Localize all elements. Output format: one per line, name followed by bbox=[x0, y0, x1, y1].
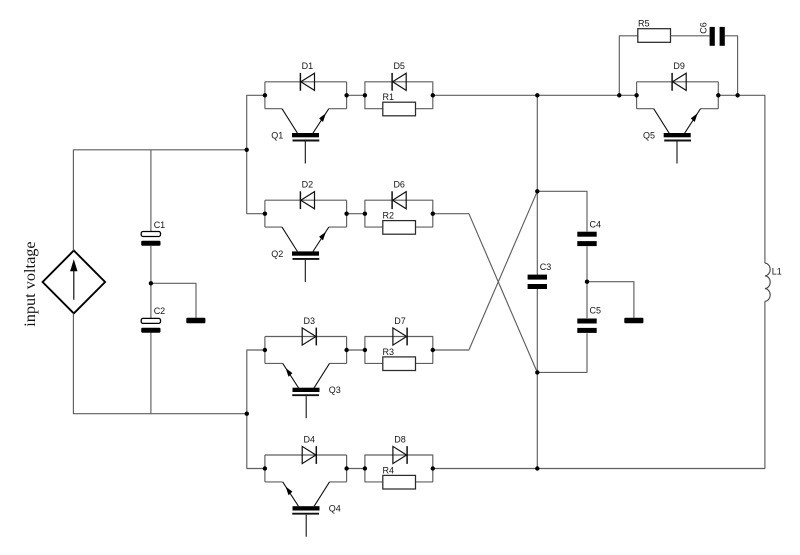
wire: Q5 to top-right corner down to L1 bbox=[718, 95, 765, 263]
svg-text:C5: C5 bbox=[590, 305, 602, 315]
svg-text:R1: R1 bbox=[383, 92, 395, 102]
resistor R4 bbox=[383, 465, 416, 489]
capacitor C2 bbox=[141, 306, 165, 333]
transistor Q1 bbox=[271, 109, 329, 164]
wire: C2 ground stub bbox=[151, 283, 196, 318]
node: lower center node bbox=[535, 370, 539, 374]
resistor R1 bbox=[383, 92, 416, 116]
wire: capacitor column lower bbox=[150, 332, 152, 414]
diode D9 bbox=[672, 61, 686, 91]
resistor R5 bbox=[638, 18, 671, 42]
wire: Q1 output to center node bbox=[433, 94, 538, 96]
svg-text:D6: D6 bbox=[393, 180, 405, 190]
node: R4 box left bbox=[363, 466, 367, 470]
wire: C4/C5 ground stub bbox=[587, 282, 634, 318]
svg-text:R3: R3 bbox=[383, 347, 395, 357]
capacitor C4 bbox=[577, 219, 601, 246]
wire: Q4 output to lower-right rail bbox=[433, 468, 538, 470]
wire: Q4 stage outline box bbox=[265, 455, 347, 482]
node: upper bus junction bbox=[245, 148, 249, 152]
wire: upper node to C4 bbox=[537, 191, 587, 231]
svg-text:C6: C6 bbox=[698, 22, 708, 34]
wire: R2/D6 parallel box bbox=[365, 200, 433, 227]
wire: capacitor column upper bbox=[150, 150, 152, 232]
node: lower bus junction bbox=[245, 412, 249, 416]
node: Q3 right bbox=[344, 348, 348, 352]
wire: L1 down to bottom-right rail bbox=[537, 301, 765, 468]
node: R1 box right bbox=[431, 93, 435, 97]
capacitor C5 bbox=[577, 305, 601, 333]
svg-text:L1: L1 bbox=[772, 267, 782, 277]
wire: C3 column bbox=[536, 191, 538, 372]
wire: C6 drop to node bbox=[725, 36, 738, 96]
svg-text:Q1: Q1 bbox=[271, 130, 283, 140]
node: lower-right rail junction bbox=[535, 466, 539, 470]
wire: lower bus to Q3/Q4 bbox=[247, 350, 265, 469]
wire: C5 to lower node bbox=[537, 333, 587, 372]
svg-text:D2: D2 bbox=[302, 180, 314, 190]
wire: Q1 stage to R1 box bbox=[347, 94, 365, 96]
diode D5 bbox=[392, 61, 406, 91]
wire: Q2 stage outline box bbox=[265, 200, 347, 227]
diode D7 bbox=[393, 316, 407, 346]
wire: Q5 stage outline box bbox=[637, 82, 719, 109]
node: Q4 right bbox=[344, 466, 348, 470]
wire: R5 branch drop bbox=[619, 36, 638, 96]
node: R4 box right bbox=[431, 466, 435, 470]
wire: center column upper bbox=[536, 95, 538, 191]
svg-text:R2: R2 bbox=[383, 211, 395, 221]
wire: center column lower bbox=[536, 372, 538, 468]
diode D4 bbox=[302, 434, 316, 464]
node: C6 branch tap bbox=[735, 93, 739, 97]
transistor Q5 bbox=[643, 109, 701, 164]
svg-text:D8: D8 bbox=[394, 434, 406, 444]
wire: Q3 stage outline box bbox=[265, 337, 347, 364]
svg-text:R4: R4 bbox=[383, 465, 395, 475]
svg-text:C3: C3 bbox=[540, 262, 552, 272]
node: R3 box right bbox=[431, 348, 435, 352]
ground (C2 midpoint) bbox=[186, 318, 205, 323]
capacitor C1 bbox=[141, 220, 165, 246]
wire: Q1 stage outline box bbox=[265, 82, 347, 109]
svg-text:Q2: Q2 bbox=[271, 249, 283, 259]
svg-text:C4: C4 bbox=[590, 219, 602, 229]
diode D6 bbox=[392, 180, 406, 210]
resistor R2 bbox=[383, 211, 416, 235]
node: center top junction bbox=[535, 93, 539, 97]
svg-text:C1: C1 bbox=[154, 220, 166, 230]
node: R1 box left bbox=[363, 93, 367, 97]
diode D3 bbox=[302, 316, 316, 346]
wire: C4 to C5 bbox=[586, 246, 588, 318]
transistor Q2 bbox=[271, 227, 329, 282]
transistor Q3 bbox=[283, 363, 341, 418]
node: R2 box right bbox=[431, 212, 435, 216]
inductor L1 bbox=[765, 263, 782, 301]
resistor R3 bbox=[383, 347, 416, 371]
wire: center node to Q5 stage bbox=[537, 94, 636, 96]
svg-text:input voltage: input voltage bbox=[20, 241, 39, 326]
node: C1/C2 midpoint bbox=[149, 281, 153, 285]
node: Q2 left bbox=[263, 212, 267, 216]
diode D1 bbox=[300, 61, 314, 91]
node: upper center node bbox=[535, 189, 539, 193]
node: R2 box left bbox=[363, 212, 367, 216]
wire: Q3 stage to R3 box bbox=[347, 349, 365, 351]
node: Q3 left bbox=[263, 348, 267, 352]
wire: R5 to C6 bbox=[671, 35, 710, 37]
node: Q4 left bbox=[263, 466, 267, 470]
node: Q1 right bbox=[344, 93, 348, 97]
svg-text:D1: D1 bbox=[302, 61, 314, 71]
svg-text:R5: R5 bbox=[638, 18, 650, 28]
svg-text:D5: D5 bbox=[393, 61, 405, 71]
node: C4/C5 midpoint bbox=[585, 280, 589, 284]
svg-text:Q3: Q3 bbox=[329, 385, 341, 395]
transistor Q4 bbox=[283, 482, 341, 537]
wire: source bottom to bottom rail to bus bbox=[73, 313, 246, 413]
node: Q5 right bbox=[716, 93, 720, 97]
wire: Q3 output diagonal to upper node bbox=[433, 191, 538, 350]
svg-text:D7: D7 bbox=[394, 316, 406, 326]
node: R5 branch tap bbox=[617, 93, 621, 97]
wire: source top to top rail to bus bbox=[73, 150, 246, 251]
node: R3 box left bbox=[363, 348, 367, 352]
svg-text:Q5: Q5 bbox=[643, 130, 655, 140]
capacitor C3 bbox=[528, 262, 552, 289]
wire: Q2 stage to R2 box bbox=[347, 213, 365, 215]
node: Q1 left bbox=[263, 93, 267, 97]
node: Q2 right bbox=[344, 212, 348, 216]
svg-text:D4: D4 bbox=[304, 434, 316, 444]
svg-text:C2: C2 bbox=[154, 306, 166, 316]
wire: R4/D8 parallel box bbox=[365, 455, 433, 482]
node: Q5 left bbox=[634, 93, 638, 97]
svg-text:D3: D3 bbox=[304, 316, 316, 326]
wire: Q2 output diagonal to lower node bbox=[433, 214, 538, 373]
svg-text:D9: D9 bbox=[673, 61, 685, 71]
ground (C4/C5 midpoint) bbox=[624, 318, 643, 323]
wire: upper bus to Q1/Q2 bbox=[247, 95, 265, 213]
wire: R1/D5 parallel box bbox=[365, 82, 433, 109]
diode D8 bbox=[393, 434, 407, 464]
wire: R3/D7 parallel box bbox=[365, 337, 433, 364]
capacitor C6 bbox=[698, 22, 725, 46]
svg-text:Q4: Q4 bbox=[329, 504, 341, 514]
voltage source V1 (input voltage) bbox=[20, 241, 105, 326]
diode D2 bbox=[300, 180, 314, 210]
wire: Q4 stage to R4 box bbox=[347, 468, 365, 470]
wire: capacitor column middle bbox=[150, 246, 152, 319]
